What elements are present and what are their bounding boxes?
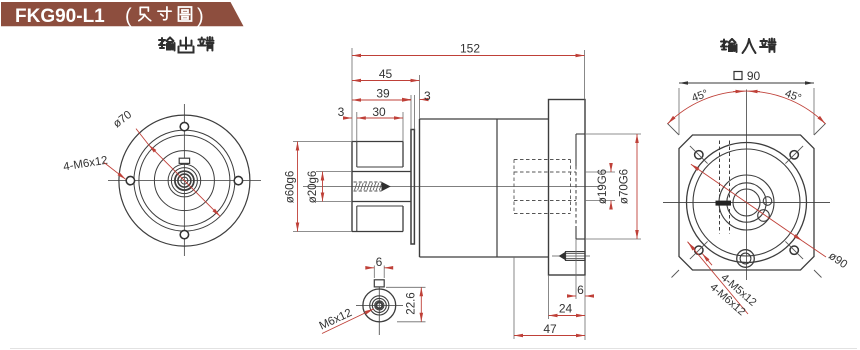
svg-text:47: 47 (543, 322, 557, 336)
svg-text:45: 45 (379, 67, 393, 81)
svg-text:(: ( (125, 6, 132, 28)
svg-text:39: 39 (376, 87, 390, 101)
svg-text:ø19G6: ø19G6 (597, 169, 609, 204)
svg-text:30: 30 (372, 105, 386, 119)
svg-text:90: 90 (747, 69, 761, 83)
svg-text:FKG90-L1: FKG90-L1 (15, 6, 105, 27)
svg-text:): ) (197, 6, 204, 28)
svg-text:22.6: 22.6 (406, 292, 418, 314)
svg-text:24: 24 (559, 302, 573, 316)
svg-text:6: 6 (577, 283, 584, 297)
svg-text:ø70G6: ø70G6 (619, 169, 631, 204)
svg-text:3: 3 (338, 105, 345, 119)
svg-text:ø20g6: ø20g6 (307, 171, 319, 204)
svg-text:6: 6 (376, 255, 383, 269)
svg-text:152: 152 (460, 42, 480, 56)
svg-text:3: 3 (424, 89, 431, 103)
svg-text:ø60g6: ø60g6 (285, 171, 297, 204)
